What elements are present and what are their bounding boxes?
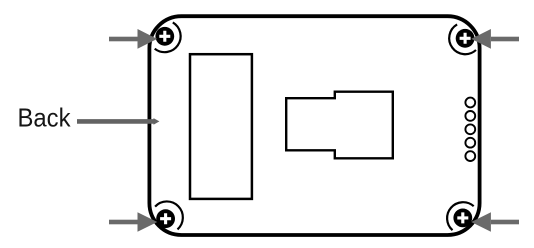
leader line from Back label	[77, 118, 159, 125]
connector plug outline	[286, 92, 393, 159]
arrow top-right	[471, 29, 519, 49]
LED hole 4	[465, 138, 475, 148]
screw bottom-right	[453, 209, 472, 228]
battery compartment rectangle	[190, 54, 252, 199]
countersink arc top-left	[155, 22, 181, 52]
countersink arc bottom-right	[447, 202, 474, 230]
arrow bottom-right	[471, 212, 519, 232]
arrow top-left	[109, 29, 157, 49]
LED hole 3	[465, 124, 475, 134]
LED hole 2	[465, 111, 475, 121]
LED hole 1	[465, 98, 475, 108]
screw bottom-left	[156, 209, 175, 228]
LED hole 5	[465, 151, 475, 161]
arrow bottom-left	[109, 212, 157, 232]
svg-text:Back: Back	[18, 103, 72, 133]
countersink arc bottom-left	[155, 201, 183, 229]
countersink arc top-right	[449, 24, 476, 54]
screw top-left	[155, 27, 174, 46]
screw top-right	[456, 29, 475, 48]
device back outline	[149, 16, 479, 235]
